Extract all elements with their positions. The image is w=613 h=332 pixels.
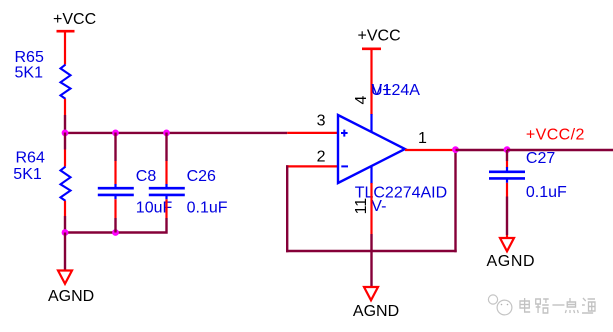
junction node A at C26 — [163, 130, 170, 137]
svg-text:R65: R65 — [15, 49, 44, 66]
wire: red stub above AGND — [506, 235, 508, 238]
pin 1 output wire (red) — [405, 149, 456, 151]
svg-text:2: 2 — [317, 149, 326, 166]
路 — [536, 299, 549, 313]
inverting - marker — [341, 165, 348, 167]
watermark text 电路一点通 (drawn strokes) — [520, 298, 595, 313]
wire: C8 pin to bottom net — [114, 218, 116, 233]
power symbol +VCC bar (op-amp supply) — [362, 47, 381, 50]
pin 4 stub inside symbol (blue) — [370, 114, 372, 132]
resistor R64 — [61, 167, 71, 201]
svg-text:AGND: AGND — [353, 303, 399, 320]
svg-text:1: 1 — [418, 130, 427, 147]
wire: C27 node down (maroon) — [506, 150, 508, 161]
svg-text:AGND: AGND — [48, 288, 94, 305]
svg-text:C8: C8 — [136, 168, 157, 185]
junction bottom net at C8 — [112, 229, 119, 236]
capacitor C8 — [98, 184, 134, 199]
wire: C27 bottom pin (red) — [506, 183, 508, 197]
wire: bottom ground net horizontal — [64, 218, 167, 233]
non-inverting + marker — [341, 130, 348, 137]
svg-text:+VCC: +VCC — [358, 28, 401, 45]
wire: left rail down to AGND — [64, 233, 66, 271]
junction node A at left rail — [62, 130, 69, 137]
capacitor C26 — [149, 184, 185, 199]
svg-text:AGND: AGND — [487, 253, 536, 270]
svg-text:R64: R64 — [16, 150, 45, 167]
svg-text:V-: V- — [371, 198, 386, 215]
ground AGND (left) — [58, 271, 72, 284]
svg-text:5K1: 5K1 — [15, 65, 44, 82]
wire: op-amp pin 11 down (red) — [370, 183, 372, 234]
一 — [552, 304, 564, 306]
svg-text:3: 3 — [317, 113, 326, 130]
wire: C26 top pin (red) — [165, 161, 167, 185]
pin 11 stub inside symbol (blue) — [370, 166, 372, 184]
wire: +VCC bar down to op-amp pin 4 (red) — [370, 49, 372, 115]
watermark logo — [488, 295, 512, 315]
junction node A at C8 — [112, 130, 119, 137]
wire: R64 bottom pin (red) — [64, 201, 66, 216]
svg-text:C27: C27 — [526, 150, 555, 167]
svg-text:+VCC/2: +VCC/2 — [526, 127, 585, 144]
wire: pin 11 to AGND (maroon) — [370, 234, 372, 287]
resistor R65 — [61, 65, 71, 99]
wire: feedback bottom horizontal (maroon) — [286, 250, 457, 252]
capacitor C27 — [489, 167, 525, 183]
通 — [582, 298, 595, 313]
电 — [520, 298, 530, 312]
svg-text:0.1uF: 0.1uF — [526, 184, 567, 201]
点 — [565, 298, 578, 313]
wire: +VCC bar down to resistor R65 top pin — [64, 31, 66, 64]
svg-text:5K1: 5K1 — [13, 166, 42, 183]
power symbol +VCC bar (left rail) — [57, 30, 75, 33]
svg-text:V+: V+ — [372, 82, 392, 99]
wire: C27 top pin (red) — [506, 161, 508, 168]
wire: C27 to AGND (maroon) — [506, 197, 508, 236]
junction bottom net at left rail — [62, 229, 69, 236]
wire: R64 pin to bottom ground net — [64, 216, 66, 233]
ground AGND (C27) — [500, 238, 514, 251]
wire: R65 bottom pin (red) — [64, 99, 66, 115]
svg-text:C26: C26 — [187, 168, 216, 185]
wire: node A down to C26 (maroon) — [165, 133, 167, 162]
wire: feedback left vertical (maroon) — [286, 165, 288, 252]
svg-text:11: 11 — [353, 198, 370, 215]
svg-text:+VCC: +VCC — [53, 11, 96, 28]
wire: R65 pin to node A junction — [64, 115, 66, 133]
junction C27 node — [504, 146, 511, 153]
pin 2 wire (red) into op-amp inverting input — [286, 165, 338, 167]
wire: output node to C27 node (maroon) — [456, 149, 508, 151]
svg-text:4: 4 — [353, 96, 370, 105]
wire: main horizontal net (node A) y=132.5 — [64, 132, 287, 134]
svg-text:0.1uF: 0.1uF — [187, 199, 228, 216]
pin 3 wire (red) into op-amp non-inverting input — [287, 132, 338, 134]
wire: C27 node to right edge (maroon) — [507, 149, 613, 151]
wire: node A down to R64 (maroon) — [64, 133, 66, 150]
wire: node A down to C8 (maroon) — [114, 133, 116, 162]
wire: C8 top pin (red) — [114, 161, 116, 185]
ground AGND (op-amp V-) — [364, 287, 378, 300]
junction output node — [452, 146, 459, 153]
wire: R64 top pin (red) — [64, 150, 66, 167]
op-amp U124A triangle — [338, 115, 405, 183]
wire: C8 bottom pin (red) — [114, 199, 116, 218]
wire: C26 bottom pin (red) — [165, 199, 167, 218]
wire: feedback right vertical up to output (maroon) — [454, 149, 456, 252]
